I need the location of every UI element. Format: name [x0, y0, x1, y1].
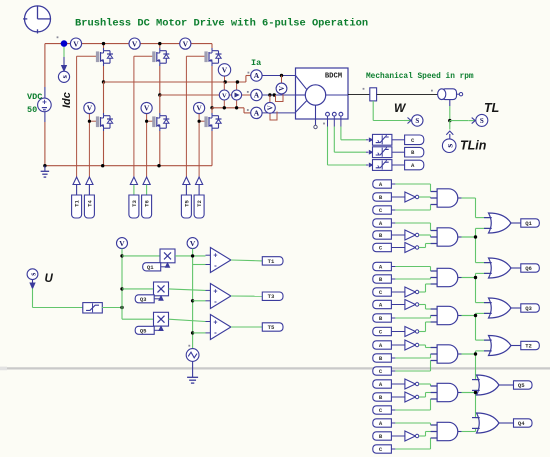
svg-text:V: V: [222, 66, 228, 75]
svg-text:W: W: [394, 101, 407, 115]
svg-text:V: V: [190, 239, 196, 248]
svg-text:S: S: [415, 117, 419, 125]
svg-text:Idc: Idc: [61, 92, 73, 108]
svg-text:V: V: [144, 104, 150, 113]
svg-text:A: A: [254, 91, 260, 100]
svg-text:-: -: [214, 297, 217, 306]
svg-text:T5: T5: [183, 200, 190, 207]
svg-text:V: V: [87, 104, 93, 113]
svg-text:V: V: [73, 39, 79, 48]
svg-text:Q4: Q4: [518, 420, 525, 427]
svg-text:V: V: [132, 39, 138, 48]
svg-text:Brushless DC Motor Drive with: Brushless DC Motor Drive with 6-pulse Op…: [75, 18, 368, 30]
svg-text:Q1: Q1: [525, 220, 532, 227]
svg-text:+: +: [213, 288, 217, 295]
svg-text:+: +: [213, 319, 217, 326]
svg-text:T5: T5: [268, 324, 275, 331]
svg-text:V: V: [278, 86, 286, 91]
svg-text:V: V: [196, 104, 202, 113]
svg-text:T2: T2: [525, 343, 532, 350]
svg-text:TLin: TLin: [460, 139, 487, 153]
svg-text:Q6: Q6: [525, 265, 532, 272]
svg-text:V: V: [222, 92, 227, 99]
svg-text:Q3: Q3: [140, 296, 147, 303]
svg-text:BDCM: BDCM: [325, 73, 342, 81]
svg-text:TL: TL: [484, 101, 499, 115]
svg-text:U: U: [45, 273, 54, 285]
svg-text:Q3: Q3: [525, 305, 532, 312]
svg-text:A: A: [254, 71, 260, 80]
svg-text:T6: T6: [144, 200, 151, 207]
svg-text:s: s: [445, 144, 456, 148]
svg-text:s: s: [28, 273, 37, 276]
svg-text:V: V: [266, 105, 274, 110]
svg-text:T3: T3: [131, 200, 138, 207]
svg-text:Mechanical Speed in rpm: Mechanical Speed in rpm: [366, 73, 474, 81]
svg-text:S: S: [480, 117, 484, 125]
svg-text:+: +: [42, 97, 47, 106]
svg-text:T1: T1: [268, 258, 275, 265]
svg-text:VDC: VDC: [27, 92, 42, 102]
svg-text:Q5: Q5: [518, 382, 525, 389]
svg-text:A: A: [254, 109, 260, 118]
svg-text:Q5: Q5: [140, 327, 147, 334]
svg-text:Ia: Ia: [251, 58, 261, 68]
svg-text:V: V: [183, 39, 189, 48]
svg-text:+: +: [213, 252, 217, 259]
svg-text:50: 50: [27, 105, 37, 115]
svg-text:-: -: [214, 328, 217, 337]
svg-text:V: V: [119, 239, 125, 248]
svg-text:T2: T2: [196, 200, 203, 207]
svg-text:T4: T4: [86, 200, 93, 207]
svg-text:Q1: Q1: [147, 264, 154, 271]
svg-text:-: -: [214, 261, 217, 270]
svg-text:T3: T3: [268, 293, 275, 300]
svg-text:T1: T1: [74, 200, 81, 207]
svg-text:s: s: [60, 75, 69, 78]
